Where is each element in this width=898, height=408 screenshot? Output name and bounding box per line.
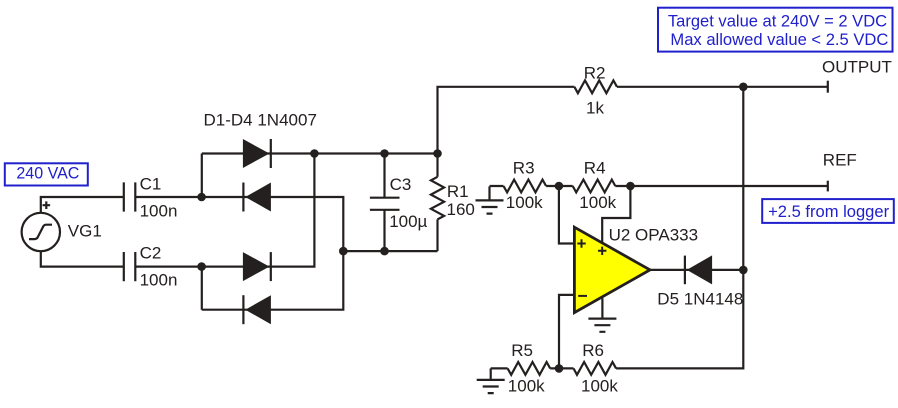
svg-text:100k: 100k: [508, 377, 545, 396]
svg-text:Max allowed value < 2.5 VDC: Max allowed value < 2.5 VDC: [670, 30, 888, 49]
svg-text:100k: 100k: [579, 193, 616, 212]
svg-text:VG1: VG1: [68, 222, 102, 241]
svg-text:100k: 100k: [581, 377, 618, 396]
svg-text:D1-D4 1N4007: D1-D4 1N4007: [204, 111, 317, 130]
svg-text:REF: REF: [823, 151, 857, 170]
svg-text:R6: R6: [582, 341, 604, 360]
svg-text:U2 OPA333: U2 OPA333: [609, 226, 698, 245]
svg-text:1k: 1k: [586, 99, 604, 118]
svg-text:C2: C2: [140, 244, 162, 263]
svg-text:Target value at 240V = 2 VDC: Target value at 240V = 2 VDC: [668, 12, 887, 31]
svg-text:C3: C3: [390, 175, 412, 194]
svg-text:R4: R4: [584, 159, 606, 178]
svg-text:+2.5 from logger: +2.5 from logger: [768, 202, 889, 221]
svg-text:100n: 100n: [140, 202, 178, 221]
svg-text:100n: 100n: [140, 271, 178, 290]
svg-text:D5 1N4148: D5 1N4148: [657, 289, 743, 308]
svg-text:R5: R5: [511, 341, 533, 360]
svg-text:C1: C1: [140, 175, 162, 194]
svg-text:R1: R1: [447, 182, 469, 201]
svg-text:240 VAC: 240 VAC: [16, 164, 79, 183]
svg-text:100µ: 100µ: [389, 212, 427, 231]
svg-text:R3: R3: [513, 159, 535, 178]
svg-text:160: 160: [447, 200, 475, 219]
svg-text:100k: 100k: [506, 193, 543, 212]
svg-text:R2: R2: [584, 64, 606, 83]
svg-text:OUTPUT: OUTPUT: [822, 57, 892, 76]
